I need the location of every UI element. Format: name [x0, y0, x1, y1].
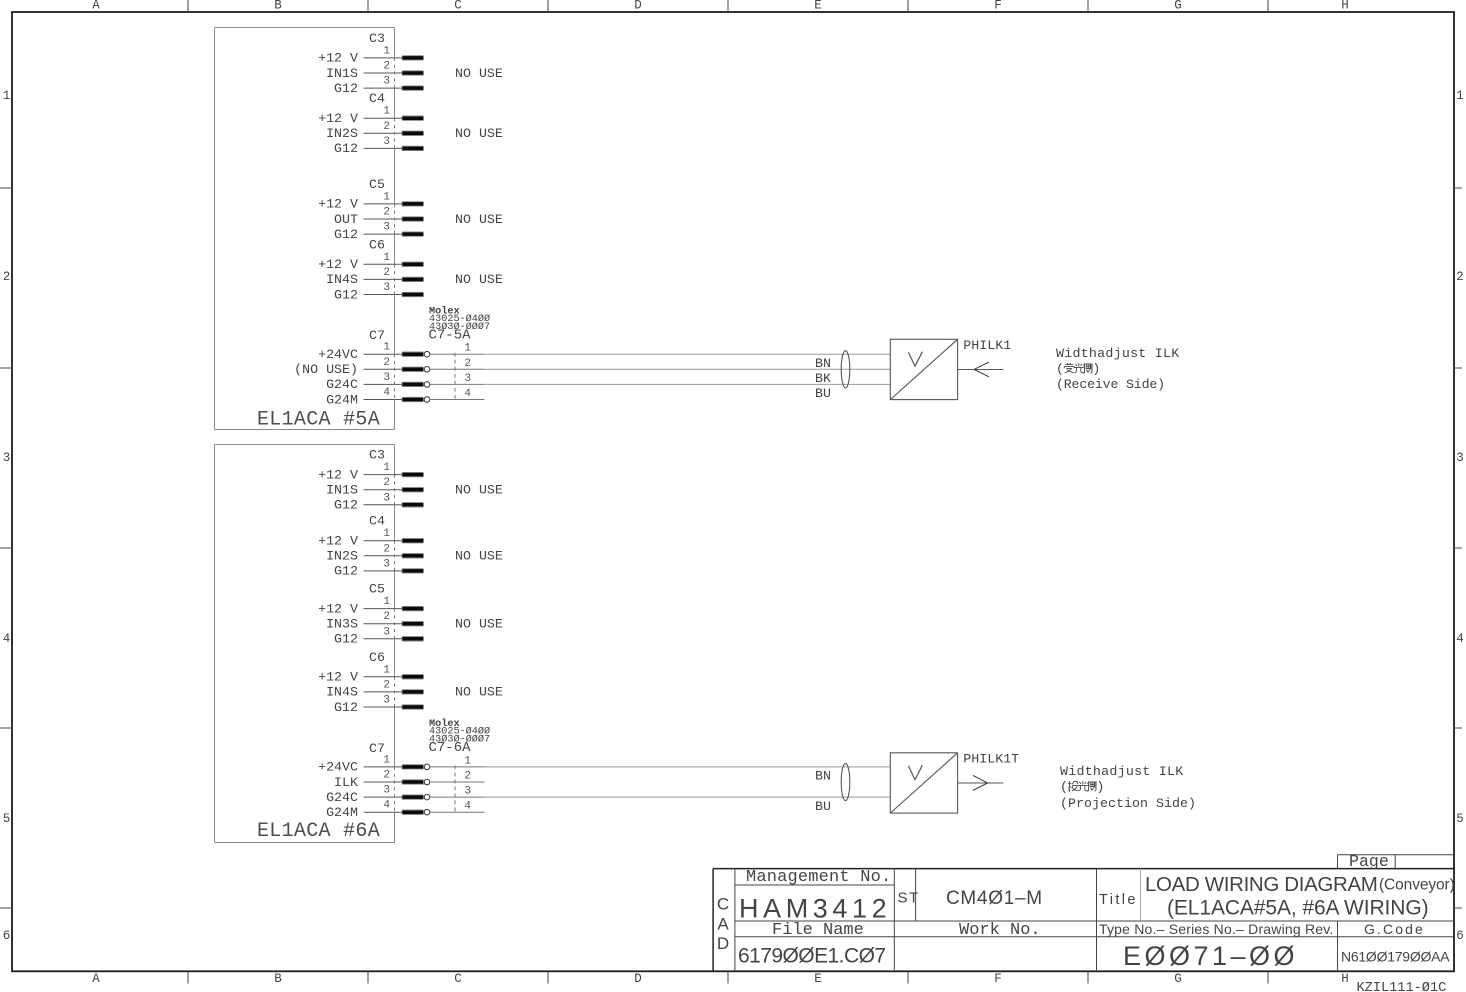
svg-text:NO USE: NO USE [455, 685, 503, 700]
C4 pin 2 contact (EL1ACA #5A) [402, 131, 424, 135]
svg-text:+12 V: +12 V [318, 51, 358, 66]
C6 pin 1 number (EL1ACA #6A) [383, 664, 390, 676]
svg-text:4: 4 [383, 387, 390, 399]
svg-text:IN1S: IN1S [326, 66, 358, 81]
svg-text:3: 3 [383, 222, 390, 234]
svg-text:): ) [1092, 361, 1100, 376]
svg-text:G.Code: G.Code [1364, 921, 1425, 937]
C7-5A dashed housing line (EL1ACA #5A) [454, 353, 456, 401]
C6 pin 1 label +12 V (EL1ACA #5A) [318, 257, 358, 272]
ECU name label EL1ACA #6A [257, 820, 380, 843]
svg-text:BN: BN [815, 769, 831, 784]
C7 pin 1 stub wire (EL1ACA #5A) [364, 353, 404, 355]
svg-text:3: 3 [464, 786, 471, 798]
svg-text:G12: G12 [334, 141, 358, 156]
C7-6A pin 4 contact (EL1ACA #6A) [402, 809, 430, 815]
C7-5A pin 3 contact (EL1ACA #5A) [402, 382, 430, 388]
label NO USE at C3 (EL1ACA #6A) [455, 483, 503, 498]
C7 pin 1 label +24VC (EL1ACA #6A) [318, 760, 358, 775]
svg-text:OUT: OUT [334, 212, 358, 227]
C7 pin 3 stub wire (EL1ACA #5A) [364, 383, 404, 385]
C7-5A pin 1 contact (EL1ACA #5A) [402, 351, 430, 357]
C7 pin 3 label G24C (EL1ACA #6A) [326, 790, 358, 805]
svg-text:G24C: G24C [326, 377, 358, 392]
svg-text:G: G [1174, 972, 1182, 986]
C3 pin 3 label G12 (EL1ACA #5A) [334, 81, 358, 96]
svg-text:Title: Title [1099, 892, 1138, 908]
C3 pin 3 wire (EL1ACA #6A) [364, 504, 404, 506]
svg-text:C4: C4 [369, 91, 385, 106]
C6 pin 3 contact (EL1ACA #6A) [402, 705, 424, 709]
svg-text:N61ØØ179ØØAA: N61ØØ179ØØAA [1341, 949, 1450, 965]
svg-text:IN2S: IN2S [326, 126, 358, 141]
label NO USE at C5 (EL1ACA #5A) [455, 212, 503, 227]
svg-text:1: 1 [1456, 89, 1464, 103]
sensor name PHILK1T (EL1ACA #6A) [963, 752, 1019, 767]
C5 pin 2 number (EL1ACA #5A) [383, 207, 390, 219]
C7 pin 4 number (EL1ACA #6A) [383, 800, 390, 812]
svg-text:): ) [1096, 779, 1104, 794]
svg-text:Management No.: Management No. [746, 868, 891, 887]
svg-text:G24C: G24C [326, 790, 358, 805]
C6 dashed connector edge (EL1ACA #6A) [394, 677, 396, 707]
svg-text:IN1S: IN1S [326, 483, 358, 498]
C7-5A pin 1 number (EL1ACA #5A) [464, 343, 471, 355]
svg-text:6: 6 [1456, 929, 1464, 943]
svg-text:Work No.: Work No. [959, 921, 1041, 940]
C6 pin 3 label G12 (EL1ACA #5A) [334, 287, 358, 302]
svg-text:2: 2 [3, 270, 11, 284]
wire C7 pin 1 to sensor BN (EL1ACA #5A) [484, 354, 890, 371]
svg-text:+12 V: +12 V [318, 601, 358, 616]
svg-text:G12: G12 [334, 498, 358, 513]
svg-text:G12: G12 [334, 700, 358, 715]
C4 pin 3 contact (EL1ACA #6A) [402, 569, 424, 573]
svg-text:G: G [1174, 0, 1182, 13]
wire C7 pin 1 stub (EL1ACA #5A) [430, 353, 485, 355]
svg-text:KZIL111-Ø1C: KZIL111-Ø1C [1357, 981, 1447, 992]
svg-text:3: 3 [383, 492, 390, 504]
svg-text:5: 5 [1456, 812, 1464, 826]
svg-text:B: B [274, 0, 282, 13]
svg-text:G24M: G24M [326, 392, 358, 407]
C5 pin 3 number (EL1ACA #6A) [383, 626, 390, 638]
wire C7 pin 3 stub (EL1ACA #6A) [430, 796, 485, 798]
value N610017900AA [1341, 949, 1450, 965]
C5 pin 2 contact (EL1ACA #5A) [402, 217, 424, 221]
svg-text:Page: Page [1349, 852, 1389, 871]
svg-text:NO USE: NO USE [455, 617, 503, 632]
C3 pin 1 wire (EL1ACA #6A) [364, 474, 404, 476]
title block CAD label [717, 895, 729, 954]
svg-text:3: 3 [3, 451, 11, 465]
C6 pin 2 contact (EL1ACA #6A) [402, 690, 424, 694]
C3 pin 3 wire (EL1ACA #5A) [364, 87, 404, 89]
svg-text:3: 3 [383, 626, 390, 638]
svg-text:4: 4 [3, 632, 11, 646]
svg-text:3: 3 [464, 373, 471, 385]
label NO USE at C4 (EL1ACA #6A) [455, 549, 503, 564]
wire C7 pin 3 stub (EL1ACA #5A) [430, 383, 485, 385]
sensor name PHILK1 (EL1ACA #5A) [963, 338, 1011, 353]
C6 pin 3 number (EL1ACA #6A) [383, 695, 390, 707]
field G.Code [1364, 921, 1425, 937]
svg-text:C7-5A: C7-5A [429, 327, 472, 343]
label NO USE at C3 (EL1ACA #5A) [455, 66, 503, 81]
wire C7 pin 3 to sensor BU (EL1ACA #5A) [484, 384, 890, 401]
C4 pin 1 wire (EL1ACA #5A) [364, 117, 404, 119]
C7-6A pin 2 contact (EL1ACA #6A) [402, 779, 430, 785]
C6 pin 3 contact (EL1ACA #5A) [402, 292, 424, 296]
svg-text:2: 2 [1456, 270, 1464, 284]
svg-text:2: 2 [383, 611, 390, 623]
svg-text:C6: C6 [369, 650, 385, 665]
svg-text:C: C [454, 972, 462, 986]
connector C4 (EL1ACA #5A) [369, 91, 385, 106]
C5 pin 2 wire (EL1ACA #5A) [364, 218, 404, 220]
svg-text:CM4Ø1–M: CM4Ø1–M [946, 888, 1043, 909]
connector C4 (EL1ACA #6A) [369, 514, 385, 529]
svg-text:A: A [717, 915, 729, 934]
title text LOAD WIRING DIAGRAM (Conveyor) [1145, 873, 1455, 896]
svg-text:NO USE: NO USE [455, 549, 503, 564]
C4 pin 3 label G12 (EL1ACA #5A) [334, 141, 358, 156]
C4 pin 3 wire (EL1ACA #6A) [364, 570, 404, 572]
svg-text:2: 2 [383, 477, 390, 489]
C7-6A pin 3 contact (EL1ACA #6A) [402, 794, 430, 800]
C4 pin 3 contact (EL1ACA #5A) [402, 146, 424, 150]
C3 pin 2 number (EL1ACA #5A) [383, 61, 390, 73]
svg-text:BU: BU [815, 386, 831, 401]
C7 pin 4 stub wire (EL1ACA #5A) [364, 399, 404, 401]
svg-text:C3: C3 [369, 31, 385, 46]
svg-text:NO USE: NO USE [455, 126, 503, 141]
svg-text:B: B [274, 972, 282, 986]
C7-6A pin 2 number (EL1ACA #6A) [464, 771, 471, 783]
svg-text:IN2S: IN2S [326, 549, 358, 564]
C5 pin 1 contact (EL1ACA #6A) [402, 606, 424, 610]
svg-text:Widthadjust ILK: Widthadjust ILK [1060, 764, 1183, 779]
C7 pin 1 number (EL1ACA #5A) [383, 342, 390, 354]
C3 pin 1 number (EL1ACA #6A) [383, 462, 390, 474]
C5 pin 1 wire (EL1ACA #5A) [364, 203, 404, 205]
C7-6A pin 1 contact (EL1ACA #6A) [402, 764, 430, 770]
C7 pin 3 number (EL1ACA #6A) [383, 785, 390, 797]
svg-text:F: F [994, 0, 1002, 13]
svg-text:Type No.– Series No.– Drawing: Type No.– Series No.– Drawing Rev. [1099, 921, 1334, 937]
wire C7 pin 4 stub (EL1ACA #5A) [430, 399, 485, 401]
C4 pin 2 wire (EL1ACA #6A) [364, 555, 404, 557]
svg-text:+12 V: +12 V [318, 670, 358, 685]
svg-text:NO USE: NO USE [455, 66, 503, 81]
ECU name label EL1ACA #5A [257, 408, 380, 431]
C7-5A pin 3 number (EL1ACA #5A) [464, 373, 471, 385]
C3 pin 3 contact (EL1ACA #5A) [402, 86, 424, 90]
svg-text:1: 1 [464, 343, 471, 355]
svg-text:3: 3 [383, 695, 390, 707]
svg-text:1: 1 [383, 191, 390, 203]
C4 pin 2 number (EL1ACA #6A) [383, 543, 390, 555]
svg-text:IN3S: IN3S [326, 617, 358, 632]
C3 pin 1 contact (EL1ACA #6A) [402, 472, 424, 476]
C5 pin 2 contact (EL1ACA #6A) [402, 622, 424, 626]
svg-text:1: 1 [383, 45, 390, 57]
C7 pin 2 number (EL1ACA #6A) [383, 770, 390, 782]
connector C7 (EL1ACA #5A) [369, 328, 385, 343]
C6 pin 1 contact (EL1ACA #6A) [402, 675, 424, 679]
C3 pin 2 number (EL1ACA #6A) [383, 477, 390, 489]
C7 pin 4 label G24M (EL1ACA #6A) [326, 805, 358, 820]
field Management No. [746, 868, 891, 887]
svg-text:2: 2 [383, 121, 390, 133]
svg-text:(NO USE): (NO USE) [294, 362, 358, 377]
C3 pin 1 wire (EL1ACA #5A) [364, 57, 404, 59]
svg-text:ILK: ILK [334, 775, 358, 790]
svg-text:1: 1 [383, 664, 390, 676]
connector C6 (EL1ACA #5A) [369, 237, 385, 252]
C5 pin 2 wire (EL1ACA #6A) [364, 623, 404, 625]
svg-text:C3: C3 [369, 448, 385, 463]
C3 pin 1 label +12 V (EL1ACA #5A) [318, 51, 358, 66]
light beam arrow out of PHILK1T (projection) [958, 775, 1004, 790]
svg-text:1: 1 [383, 528, 390, 540]
svg-text:1: 1 [383, 596, 390, 608]
C4 pin 2 number (EL1ACA #5A) [383, 121, 390, 133]
C6 dashed connector edge (EL1ACA #5A) [394, 264, 396, 294]
C7 pin 2 label ILK (EL1ACA #6A) [334, 775, 358, 790]
svg-text:G12: G12 [334, 227, 358, 242]
svg-text:ST: ST [898, 890, 920, 907]
connector C7-5A Molex label (EL1ACA #5A) [429, 305, 491, 343]
C7 dashed connector edge (EL1ACA #6A) [394, 767, 396, 812]
C6 pin 1 wire (EL1ACA #6A) [364, 676, 404, 678]
svg-text:+12 V: +12 V [318, 534, 358, 549]
svg-text:2: 2 [383, 61, 390, 73]
svg-text:4: 4 [464, 801, 471, 813]
C4 pin 1 label +12 V (EL1ACA #6A) [318, 534, 358, 549]
wire C7 pin 1 to sensor BN (EL1ACA #6A) [484, 767, 890, 784]
svg-text:3: 3 [383, 282, 390, 294]
field File Name [772, 921, 864, 940]
svg-text:IN4S: IN4S [326, 685, 358, 700]
C6 pin 1 wire (EL1ACA #5A) [364, 263, 404, 265]
light beam arrow into PHILK1 (receive) [958, 362, 1004, 377]
svg-text:NO USE: NO USE [455, 212, 503, 227]
svg-text:1: 1 [464, 755, 471, 767]
C4 pin 1 contact (EL1ACA #5A) [402, 116, 424, 120]
svg-text:1: 1 [383, 462, 390, 474]
svg-text:5: 5 [3, 812, 11, 826]
C4 pin 3 label G12 (EL1ACA #6A) [334, 564, 358, 579]
C7-6A pin 3 number (EL1ACA #6A) [464, 786, 471, 798]
svg-text:+24VC: +24VC [318, 347, 358, 362]
title block [713, 869, 1454, 972]
photo sensor PHILK1T (EL1ACA #6A) [890, 753, 957, 813]
svg-text:G12: G12 [334, 287, 358, 302]
page box [1338, 852, 1455, 871]
field Type No.- Series No.- Drawing Rev. [1099, 921, 1334, 937]
value E0071-00 drawing number [1123, 941, 1298, 971]
svg-text:G12: G12 [334, 81, 358, 96]
svg-text:3: 3 [383, 372, 390, 384]
svg-text:H: H [1341, 972, 1349, 986]
connector C3 (EL1ACA #6A) [369, 448, 385, 463]
C7-5A pin 4 contact (EL1ACA #5A) [402, 397, 430, 403]
svg-text:1: 1 [383, 342, 390, 354]
C5 pin 1 wire (EL1ACA #6A) [364, 608, 404, 610]
svg-text:File Name: File Name [772, 921, 864, 940]
C3 dashed connector edge (EL1ACA #6A) [394, 475, 396, 505]
connector C6 (EL1ACA #6A) [369, 650, 385, 665]
C5 pin 2 label IN3S (EL1ACA #6A) [326, 617, 358, 632]
svg-text:(: ( [1056, 361, 1064, 376]
C5 pin 3 label G12 (EL1ACA #6A) [334, 632, 358, 647]
C7 pin 1 stub wire (EL1ACA #6A) [364, 766, 404, 768]
label NO USE at C4 (EL1ACA #5A) [455, 126, 503, 141]
C7 pin 3 label G24C (EL1ACA #5A) [326, 377, 358, 392]
C4 pin 1 label +12 V (EL1ACA #5A) [318, 111, 358, 126]
svg-text:2: 2 [464, 358, 471, 370]
svg-text:C: C [717, 895, 729, 914]
C5 pin 2 label OUT (EL1ACA #5A) [334, 212, 358, 227]
svg-text:4: 4 [1456, 632, 1464, 646]
wire C7 pin 4 stub (EL1ACA #6A) [430, 811, 485, 813]
wire C7 pin 3 to sensor BU (EL1ACA #6A) [484, 797, 890, 814]
ECU module EL1ACA #5A [215, 28, 395, 430]
cable sheath oval (EL1ACA #5A) [841, 351, 850, 388]
C3 pin 2 contact (EL1ACA #6A) [402, 488, 424, 492]
C3 dashed connector edge (EL1ACA #5A) [394, 58, 396, 88]
svg-text:3: 3 [1456, 451, 1464, 465]
C3 pin 2 label IN1S (EL1ACA #6A) [326, 483, 358, 498]
C5 pin 3 number (EL1ACA #5A) [383, 222, 390, 234]
C4 pin 3 wire (EL1ACA #5A) [364, 147, 404, 149]
function label Widthadjust ILK (EL1ACA #6A) [1060, 764, 1196, 811]
label NO USE at C5 (EL1ACA #6A) [455, 617, 503, 632]
title text (EL1ACA#5A, #6A WIRING) [1167, 897, 1428, 920]
C7 pin 4 number (EL1ACA #5A) [383, 387, 390, 399]
svg-text:D: D [634, 972, 642, 986]
svg-text:6: 6 [3, 929, 11, 943]
C6 pin 2 label IN4S (EL1ACA #6A) [326, 685, 358, 700]
svg-text:3: 3 [383, 76, 390, 88]
C7 pin 3 stub wire (EL1ACA #6A) [364, 796, 404, 798]
svg-text:+12 V: +12 V [318, 467, 358, 482]
svg-text:4: 4 [464, 388, 471, 400]
C6 pin 2 contact (EL1ACA #5A) [402, 277, 424, 281]
C5 pin 1 label +12 V (EL1ACA #6A) [318, 601, 358, 616]
svg-text:G12: G12 [334, 564, 358, 579]
C3 pin 3 number (EL1ACA #6A) [383, 492, 390, 504]
C5 pin 3 contact (EL1ACA #6A) [402, 637, 424, 641]
svg-text:C5: C5 [369, 582, 385, 597]
C4 pin 1 contact (EL1ACA #6A) [402, 539, 424, 543]
svg-text:2: 2 [383, 543, 390, 555]
connector C7 (EL1ACA #6A) [369, 741, 385, 756]
C7-6A dashed housing line (EL1ACA #6A) [454, 765, 456, 813]
svg-text:C5: C5 [369, 177, 385, 192]
C6 pin 3 wire (EL1ACA #6A) [364, 706, 404, 708]
C7 dashed connector edge (EL1ACA #5A) [394, 354, 396, 399]
svg-text:D: D [717, 934, 729, 953]
svg-text:C6: C6 [369, 237, 385, 252]
C7-6A pin 4 number (EL1ACA #6A) [464, 801, 471, 813]
C7 pin 4 stub wire (EL1ACA #6A) [364, 811, 404, 813]
C7 pin 2 stub wire (EL1ACA #6A) [364, 781, 404, 783]
svg-text:(: ( [1060, 779, 1068, 794]
svg-text:NO USE: NO USE [455, 483, 503, 498]
svg-text:1: 1 [383, 252, 390, 264]
C6 pin 1 number (EL1ACA #5A) [383, 252, 390, 264]
C7-5A pin 2 contact (EL1ACA #5A) [402, 367, 430, 373]
wire C7 pin 2 stub (EL1ACA #6A) [430, 781, 485, 783]
connector C3 (EL1ACA #5A) [369, 31, 385, 46]
C7 pin 1 label +24VC (EL1ACA #5A) [318, 347, 358, 362]
svg-text:1: 1 [383, 106, 390, 118]
cable sheath oval (EL1ACA #6A) [841, 763, 850, 800]
svg-text:4: 4 [383, 800, 390, 812]
svg-text:2: 2 [383, 207, 390, 219]
svg-text:BN: BN [815, 356, 831, 371]
svg-text:LOAD WIRING DIAGRAM: LOAD WIRING DIAGRAM [1145, 873, 1378, 896]
svg-text:A: A [92, 972, 100, 986]
svg-text:+24VC: +24VC [318, 760, 358, 775]
C5 pin 3 contact (EL1ACA #5A) [402, 232, 424, 236]
C6 pin 3 label G12 (EL1ACA #6A) [334, 700, 358, 715]
C6 pin 1 label +12 V (EL1ACA #6A) [318, 670, 358, 685]
svg-text:IN4S: IN4S [326, 272, 358, 287]
svg-text:1: 1 [3, 89, 11, 103]
photo sensor PHILK1 (EL1ACA #5A) [890, 339, 957, 399]
svg-text:3: 3 [383, 558, 390, 570]
C7 pin 3 number (EL1ACA #5A) [383, 372, 390, 384]
C7-6A pin 1 number (EL1ACA #6A) [464, 755, 471, 767]
label NO USE at C6 (EL1ACA #6A) [455, 685, 503, 700]
svg-text:F: F [994, 972, 1002, 986]
label NO USE at C6 (EL1ACA #5A) [455, 272, 503, 287]
svg-text:2: 2 [383, 770, 390, 782]
svg-text:+12 V: +12 V [318, 111, 358, 126]
C4 pin 3 number (EL1ACA #5A) [383, 136, 390, 148]
svg-text:Widthadjust ILK: Widthadjust ILK [1056, 346, 1179, 361]
C4 pin 2 label IN2S (EL1ACA #6A) [326, 549, 358, 564]
field Work No. [959, 921, 1041, 940]
value HAM3412 [739, 894, 891, 924]
svg-text:HAM3412: HAM3412 [739, 894, 891, 924]
C3 pin 3 contact (EL1ACA #6A) [402, 503, 424, 507]
svg-text:2: 2 [383, 267, 390, 279]
svg-text:H: H [1341, 0, 1349, 13]
C5 pin 1 label +12 V (EL1ACA #5A) [318, 197, 358, 212]
svg-text:PHILK1: PHILK1 [963, 338, 1011, 353]
C4 pin 2 label IN2S (EL1ACA #5A) [326, 126, 358, 141]
connector C5 (EL1ACA #6A) [369, 582, 385, 597]
svg-text:3: 3 [383, 785, 390, 797]
C4 pin 1 wire (EL1ACA #6A) [364, 540, 404, 542]
C7 pin 2 number (EL1ACA #5A) [383, 357, 390, 369]
C6 pin 2 wire (EL1ACA #5A) [364, 278, 404, 280]
connector C5 (EL1ACA #5A) [369, 177, 385, 192]
C3 pin 3 label G12 (EL1ACA #6A) [334, 498, 358, 513]
svg-text:E: E [814, 0, 822, 13]
field ST [898, 890, 920, 907]
C4 pin 1 number (EL1ACA #6A) [383, 528, 390, 540]
C6 pin 3 wire (EL1ACA #5A) [364, 294, 404, 296]
svg-text:2: 2 [464, 771, 471, 783]
C6 pin 2 wire (EL1ACA #6A) [364, 691, 404, 693]
svg-text:BU: BU [815, 799, 831, 814]
wire C7 pin 1 stub (EL1ACA #6A) [430, 766, 485, 768]
